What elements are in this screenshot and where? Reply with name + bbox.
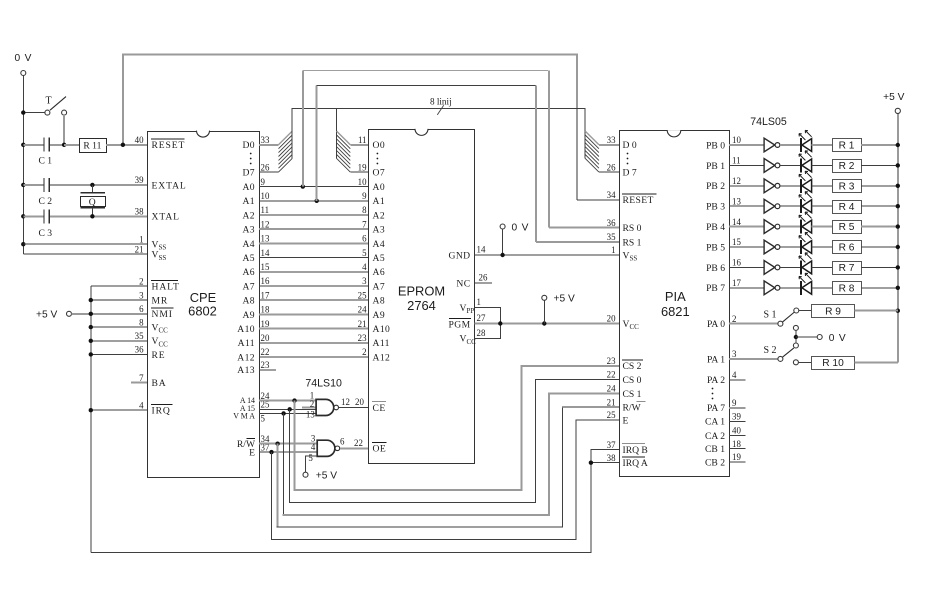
resistor R1 xyxy=(812,139,898,152)
svg-text:E: E xyxy=(249,448,255,459)
wire RE pin 36 xyxy=(91,353,147,355)
svg-text:R/W: R/W xyxy=(623,403,642,414)
svg-text:R 8: R 8 xyxy=(839,283,855,294)
svg-text:9: 9 xyxy=(261,177,266,187)
node +5V supply terminal (top right) xyxy=(883,92,904,113)
svg-text:14: 14 xyxy=(261,248,270,258)
svg-text:39: 39 xyxy=(732,411,741,421)
resistor R9 xyxy=(799,305,898,318)
resistor R4 xyxy=(812,201,898,214)
wire VSS pin 21 xyxy=(23,253,147,255)
svg-text:11: 11 xyxy=(358,135,367,145)
svg-text:22: 22 xyxy=(354,438,363,448)
svg-text:PIA: PIA xyxy=(665,289,686,304)
wire VMA branch to PIA CS1 pin 24 xyxy=(281,394,619,515)
label 8 linij with bus slash xyxy=(430,97,452,115)
svg-text:21: 21 xyxy=(358,319,367,329)
svg-text:23: 23 xyxy=(358,333,367,343)
wire CA1 pin 39 stub xyxy=(729,420,746,422)
resistor R6 xyxy=(812,241,898,254)
svg-text:3: 3 xyxy=(139,290,144,300)
svg-text:4: 4 xyxy=(311,442,316,452)
svg-text:A9: A9 xyxy=(373,310,386,321)
wire E (CPE pin 37 to gate pin 4) xyxy=(259,451,317,453)
svg-text:A5: A5 xyxy=(373,253,386,264)
svg-text:74LS05: 74LS05 xyxy=(750,116,787,128)
wire CB2 pin 19 stub xyxy=(729,461,746,463)
resistor R10 xyxy=(793,357,897,370)
svg-text:PB 7: PB 7 xyxy=(706,283,725,294)
svg-text:5: 5 xyxy=(261,414,266,424)
wire PA7 pin 9 stub xyxy=(729,407,746,409)
svg-text:37: 37 xyxy=(607,440,616,450)
svg-text:A1: A1 xyxy=(242,196,255,207)
LED D2 on PB1 xyxy=(780,151,812,173)
svg-text:XTAL: XTAL xyxy=(152,212,180,223)
svg-text:24: 24 xyxy=(607,384,616,394)
label CPE right pin names xyxy=(233,140,256,458)
wire VCC bracket (EPROM pin 28) xyxy=(474,324,500,339)
svg-text:13: 13 xyxy=(732,196,741,206)
wire A2 (CPE to EPROM) xyxy=(259,214,369,216)
LED D8 on PB7 xyxy=(780,273,812,295)
svg-text:R 4: R 4 xyxy=(839,202,855,213)
wire A1 to PIA RS1 net xyxy=(315,86,619,242)
capacitor C2 xyxy=(23,178,52,207)
svg-text:7: 7 xyxy=(139,373,144,383)
svg-text:26: 26 xyxy=(261,162,270,172)
svg-text:6802: 6802 xyxy=(188,304,217,319)
svg-text:CS 2: CS 2 xyxy=(623,361,642,372)
svg-text:CE: CE xyxy=(373,403,386,414)
svg-text:A11: A11 xyxy=(238,338,255,349)
wire XTAL (C3 to CPE pin 38) xyxy=(50,214,147,218)
svg-text:28: 28 xyxy=(477,328,486,338)
label CPE left pin names xyxy=(151,139,186,417)
label CPE 6802 title xyxy=(188,290,217,319)
wire VCC pin 35 xyxy=(91,340,147,342)
label CPE left pin numbers xyxy=(135,135,144,410)
svg-text:IRQ B: IRQ B xyxy=(623,445,648,456)
svg-text:V M A: V M A xyxy=(233,411,255,420)
svg-text:C 3: C 3 xyxy=(39,228,53,239)
svg-text:+5 V: +5 V xyxy=(36,310,57,321)
svg-text:12: 12 xyxy=(341,397,350,407)
svg-text:A5: A5 xyxy=(242,253,255,264)
svg-text:EXTAL: EXTAL xyxy=(152,180,187,191)
svg-text:BA: BA xyxy=(152,378,167,389)
svg-text:38: 38 xyxy=(607,453,616,463)
svg-text:2: 2 xyxy=(139,276,143,286)
svg-text:17: 17 xyxy=(261,290,270,300)
label 74LS05 xyxy=(750,116,787,128)
svg-text:13: 13 xyxy=(261,234,270,244)
inverter U3-8 (74LS05) on PB7 xyxy=(729,281,780,295)
svg-text:40: 40 xyxy=(135,135,144,145)
svg-text:C 1: C 1 xyxy=(39,155,53,166)
svg-text:3: 3 xyxy=(732,349,737,359)
svg-text:A2: A2 xyxy=(242,210,255,221)
svg-text:18: 18 xyxy=(261,305,270,315)
svg-text:PB 4: PB 4 xyxy=(706,222,725,233)
svg-text:PB 5: PB 5 xyxy=(706,242,725,253)
wire A11 (CPE to EPROM) xyxy=(259,342,369,344)
svg-text:PB 3: PB 3 xyxy=(706,202,725,213)
wire A14 branch to PIA CS2 pin 23 xyxy=(292,366,619,490)
svg-text:14: 14 xyxy=(477,245,486,255)
svg-text:D7: D7 xyxy=(242,168,255,179)
svg-text:A8: A8 xyxy=(242,296,255,307)
wire A0 to PIA RS0 net xyxy=(301,71,619,228)
wire MR pin 3 xyxy=(91,299,147,301)
svg-text:OE: OE xyxy=(373,444,387,455)
svg-text:19: 19 xyxy=(358,162,367,172)
junction dots on +5V left rail xyxy=(89,298,93,413)
svg-text:11: 11 xyxy=(732,156,741,166)
svg-text:A13: A13 xyxy=(237,365,255,376)
wire HALT pin 2 xyxy=(91,285,147,287)
svg-text:10: 10 xyxy=(261,191,270,201)
svg-text:CB 1: CB 1 xyxy=(705,444,725,455)
resistor R11 xyxy=(64,139,106,153)
node 0V terminal mid (switch common) xyxy=(793,325,846,348)
svg-text:IRQ: IRQ xyxy=(152,406,171,417)
svg-text:4: 4 xyxy=(732,370,737,380)
svg-text:R 5: R 5 xyxy=(839,222,855,233)
svg-text:23: 23 xyxy=(261,360,270,370)
resistor R3 xyxy=(812,180,898,193)
nand-gate U2A (pins 1,2,13 -> 12) xyxy=(306,391,350,420)
node +5V supply terminal (left) xyxy=(36,310,72,321)
inverter U3-5 (74LS05) on PB4 xyxy=(729,220,780,234)
svg-text:26: 26 xyxy=(479,273,488,283)
svg-text:21: 21 xyxy=(135,244,144,254)
svg-text:10: 10 xyxy=(358,177,367,187)
svg-text:A12: A12 xyxy=(237,352,255,363)
label PIA left pin numbers xyxy=(607,135,616,463)
svg-text:3: 3 xyxy=(362,276,367,286)
svg-text:CB 2: CB 2 xyxy=(705,457,725,468)
switch T xyxy=(26,96,67,145)
svg-text:22: 22 xyxy=(261,347,270,357)
svg-text:24: 24 xyxy=(358,305,367,315)
svg-text:20: 20 xyxy=(607,314,616,324)
svg-text:A4: A4 xyxy=(373,239,386,250)
svg-text:PA 0: PA 0 xyxy=(707,319,725,330)
svg-text:NMI: NMI xyxy=(152,309,173,320)
svg-text:35: 35 xyxy=(135,331,144,341)
label EPROM right pin names xyxy=(449,250,477,346)
svg-text:D 7: D 7 xyxy=(623,168,637,179)
svg-text:Q: Q xyxy=(89,197,96,208)
svg-text:E: E xyxy=(623,415,629,426)
svg-text:33: 33 xyxy=(261,135,270,145)
svg-text:6: 6 xyxy=(340,437,345,447)
label PIA left pin names xyxy=(622,140,656,469)
wire A15 (CPE pin 25 to gate pin 2) xyxy=(259,408,316,410)
svg-text:A10: A10 xyxy=(237,324,255,335)
svg-text:A6: A6 xyxy=(242,267,255,278)
svg-text:40: 40 xyxy=(732,426,741,436)
crystal Q xyxy=(81,185,106,216)
svg-text:1: 1 xyxy=(611,245,615,255)
svg-text:CA 1: CA 1 xyxy=(705,417,725,428)
svg-text:R 7: R 7 xyxy=(839,263,855,274)
svg-text:D 0: D 0 xyxy=(623,140,637,151)
svg-text:S 1: S 1 xyxy=(764,310,777,321)
svg-text:A3: A3 xyxy=(242,225,255,236)
svg-text:6: 6 xyxy=(139,304,144,314)
svg-text:A7: A7 xyxy=(242,281,255,292)
wire IRQ net (CPE pin 4 to PIA IRQB/IRQA) xyxy=(91,450,619,553)
wire CA2 pin 40 stub xyxy=(729,435,746,437)
LED D3 on PB2 xyxy=(780,171,812,193)
svg-text:A10: A10 xyxy=(373,324,391,335)
svg-text:CS 0: CS 0 xyxy=(623,375,642,386)
label PIA 6821 title xyxy=(661,289,690,319)
svg-text:17: 17 xyxy=(732,278,741,288)
svg-text:22: 22 xyxy=(607,370,616,380)
svg-text:PB 2: PB 2 xyxy=(706,181,725,192)
svg-text:12: 12 xyxy=(261,219,270,229)
svg-text:R 6: R 6 xyxy=(839,243,855,254)
svg-text:RS 1: RS 1 xyxy=(623,237,642,248)
svg-text:27: 27 xyxy=(477,313,486,323)
inverter U3-3 (74LS05) on PB2 xyxy=(729,179,780,193)
svg-text:0 V: 0 V xyxy=(512,222,530,233)
svg-text:GND: GND xyxy=(449,250,471,261)
wire PA2 pin 4 stub xyxy=(729,379,746,381)
wire VPP bracket (EPROM pin 1) xyxy=(474,307,500,323)
svg-text:36: 36 xyxy=(607,218,616,228)
label PIA right pin names xyxy=(705,140,725,468)
svg-text:RESET: RESET xyxy=(623,195,654,206)
LED D5 on PB4 xyxy=(780,212,812,234)
svg-text:PB 6: PB 6 xyxy=(706,263,725,274)
label CPE right pin numbers xyxy=(261,135,270,452)
wire BA pin 7 stub xyxy=(131,382,147,384)
svg-text:HALT: HALT xyxy=(152,282,180,293)
svg-text:35: 35 xyxy=(607,232,616,242)
switch S2 on PA1 xyxy=(729,345,794,362)
svg-text:CA 2: CA 2 xyxy=(705,431,725,442)
junction dots on +5V bus xyxy=(896,143,900,313)
svg-text:+5 V: +5 V xyxy=(883,92,904,103)
svg-text:19: 19 xyxy=(261,319,270,329)
svg-text:16: 16 xyxy=(261,276,270,286)
svg-text:12: 12 xyxy=(732,176,741,186)
wire A15 branch to PIA CS0 pin 22 xyxy=(288,380,619,503)
svg-text:9: 9 xyxy=(732,398,737,408)
LED D1 on PB0 xyxy=(780,130,812,152)
wire A14 (CPE pin 24 to gate pin 1) xyxy=(259,400,316,402)
svg-text:4: 4 xyxy=(139,400,144,410)
node +5V terminal at EPROM VCC xyxy=(542,294,575,324)
LED D6 on PB5 xyxy=(780,232,812,254)
svg-text:C 2: C 2 xyxy=(39,196,53,207)
svg-text:5: 5 xyxy=(362,248,367,258)
op CPE 6802 chip body U1 xyxy=(148,131,260,478)
node +5V terminal for gate pin 5 xyxy=(303,456,337,481)
capacitor C3 xyxy=(23,209,52,239)
wire VCC pin 8 xyxy=(91,326,147,328)
svg-text:A12: A12 xyxy=(373,352,391,363)
wire VMA (CPE pin 5 to gate pin 13) xyxy=(259,412,316,414)
label 74LS10 xyxy=(305,378,342,390)
inverter U3-1 (74LS05) on PB0 xyxy=(729,138,780,152)
wire RESET net (R11 to CPE pin 40 and to PIA pin 34) xyxy=(106,54,619,199)
wire IRQ pin 4 xyxy=(91,409,147,411)
svg-text:10: 10 xyxy=(732,135,741,145)
wire PGM/VCC net (EPROM pin 27 to PIA VCC pin 20) xyxy=(474,321,619,325)
svg-text:PA 2: PA 2 xyxy=(707,375,725,386)
svg-text:PB 0: PB 0 xyxy=(706,140,725,151)
wire A13 stub pin 23 xyxy=(259,369,276,371)
svg-text:6821: 6821 xyxy=(661,304,690,319)
wire GND (EPROM pin 14 to PIA VSS pin 1) xyxy=(474,254,619,256)
inverter U3-2 (74LS05) on PB1 xyxy=(729,159,780,173)
svg-text:39: 39 xyxy=(135,175,144,185)
svg-text:R 11: R 11 xyxy=(83,141,101,152)
svg-text:IRQ A: IRQ A xyxy=(623,458,648,469)
svg-text:+5 V: +5 V xyxy=(554,294,575,305)
wire VSS pin 1 xyxy=(23,243,147,245)
svg-text:PB 1: PB 1 xyxy=(706,161,725,172)
svg-text:18: 18 xyxy=(732,439,741,449)
svg-text:A3: A3 xyxy=(373,225,386,236)
svg-text:2: 2 xyxy=(362,347,366,357)
svg-text:26: 26 xyxy=(607,162,616,172)
inverter U3-7 (74LS05) on PB6 xyxy=(729,261,780,275)
wire R/W (CPE pin 34 to gate pin 3) xyxy=(259,443,317,445)
svg-text:25: 25 xyxy=(358,290,367,300)
svg-text:21: 21 xyxy=(607,397,616,407)
svg-text:NC: NC xyxy=(456,278,470,289)
svg-text:RS 0: RS 0 xyxy=(623,223,642,234)
svg-text:PA 7: PA 7 xyxy=(707,403,725,414)
wire A5 (CPE to EPROM) xyxy=(259,257,369,259)
svg-text:8 linij: 8 linij xyxy=(430,97,452,107)
svg-text:A0: A0 xyxy=(373,182,386,193)
svg-text:A11: A11 xyxy=(373,338,390,349)
wire A3 (CPE to EPROM) xyxy=(259,228,369,230)
label EPROM 2764 title xyxy=(398,284,445,314)
wire +5V bus vertical (right) xyxy=(897,114,899,363)
label PIA right pin numbers xyxy=(732,135,741,462)
wire +5V left rail vertical xyxy=(90,286,92,552)
wire data bus ripper at EPROM O0-O7 xyxy=(337,108,369,172)
svg-text:2: 2 xyxy=(732,314,736,324)
svg-text:5: 5 xyxy=(308,453,313,463)
svg-text:A6: A6 xyxy=(373,267,386,278)
svg-text:RESET: RESET xyxy=(152,140,186,151)
op PIA 6821 chip body U4 xyxy=(620,130,730,476)
svg-text:A8: A8 xyxy=(373,296,386,307)
svg-text:1: 1 xyxy=(477,297,481,307)
wire A6 (CPE to EPROM) xyxy=(259,271,369,273)
svg-text:14: 14 xyxy=(732,217,741,227)
svg-text:O0: O0 xyxy=(373,140,386,151)
wire A10 (CPE to EPROM) xyxy=(259,328,369,330)
wire 0V vertical rail xyxy=(22,76,24,255)
wire OE (gate U2B output pin 6 to EPROM pin 22) xyxy=(340,438,369,449)
svg-text:S 2: S 2 xyxy=(764,345,777,356)
svg-text:34: 34 xyxy=(607,190,616,200)
svg-text:A1: A1 xyxy=(373,196,386,207)
svg-text:2764: 2764 xyxy=(407,298,436,313)
resistor R7 xyxy=(812,262,898,275)
svg-text:PA 1: PA 1 xyxy=(707,354,725,365)
svg-text:36: 36 xyxy=(135,345,144,355)
wire A8 (CPE to EPROM) xyxy=(259,299,369,301)
wire NMI pin 6 from +5V terminal xyxy=(72,313,148,315)
resistor R8 xyxy=(812,282,898,295)
resistor R2 xyxy=(812,160,898,173)
label EPROM left pin numbers xyxy=(358,135,367,357)
switch S1 on PA0 xyxy=(729,308,799,326)
svg-text:A0: A0 xyxy=(242,182,255,193)
svg-text:R 2: R 2 xyxy=(839,161,855,172)
op EPROM 2764 chip body U2 xyxy=(369,129,475,464)
nand-gate U2B (pins 3,4,5 -> 6) xyxy=(308,434,345,463)
svg-text:CS 1: CS 1 xyxy=(623,389,642,400)
svg-text:0 V: 0 V xyxy=(829,333,847,344)
svg-text:A9: A9 xyxy=(242,310,255,321)
svg-text:19: 19 xyxy=(732,452,741,462)
svg-text:25: 25 xyxy=(607,410,616,420)
svg-text:2: 2 xyxy=(310,399,314,409)
wire CB1 pin 18 stub xyxy=(729,448,746,450)
wire data bus ripper at CPE D0-D7 xyxy=(259,131,292,172)
wire A1 (CPE to EPROM) xyxy=(259,200,369,202)
node 0V supply terminal (top left) xyxy=(15,53,33,76)
junction dots on 0V rail xyxy=(21,110,25,246)
svg-text:8: 8 xyxy=(362,205,367,215)
wire EXTAL (C2 to CPE pin 39) xyxy=(50,183,147,187)
svg-text:8: 8 xyxy=(139,317,144,327)
svg-text:74LS10: 74LS10 xyxy=(305,378,342,390)
inverter U3-6 (74LS05) on PB5 xyxy=(729,240,780,254)
label EPROM left pin names xyxy=(372,140,390,455)
svg-text:15: 15 xyxy=(261,262,270,272)
svg-text:38: 38 xyxy=(135,207,144,217)
wire A0 (CPE to EPROM) xyxy=(259,186,369,188)
svg-text:R 1: R 1 xyxy=(839,141,855,152)
svg-text:7: 7 xyxy=(362,219,367,229)
svg-text:O7: O7 xyxy=(373,168,386,179)
svg-text:+5 V: +5 V xyxy=(316,471,337,482)
LED D7 on PB6 xyxy=(780,253,812,275)
svg-text:4: 4 xyxy=(362,262,367,272)
svg-text:13: 13 xyxy=(306,410,315,420)
wire data bus ripper at PIA D0-D7 xyxy=(585,131,619,172)
svg-text:EPROM: EPROM xyxy=(398,284,445,299)
svg-text:20: 20 xyxy=(261,333,270,343)
svg-text:6: 6 xyxy=(362,234,367,244)
svg-text:9: 9 xyxy=(362,191,367,201)
svg-text:23: 23 xyxy=(607,356,616,366)
svg-text:MR: MR xyxy=(152,296,169,307)
svg-text:R 3: R 3 xyxy=(839,181,855,192)
wire E branch to PIA pin 25 xyxy=(269,420,619,539)
svg-text:PGM: PGM xyxy=(449,319,471,330)
wire R/W branch to PIA pin 21 xyxy=(275,407,619,527)
wire A12 (CPE to EPROM) xyxy=(259,356,369,358)
LED D4 on PB3 xyxy=(780,192,812,214)
svg-text:20: 20 xyxy=(355,397,364,407)
svg-text:11: 11 xyxy=(261,205,270,215)
svg-text:0 V: 0 V xyxy=(15,53,33,64)
